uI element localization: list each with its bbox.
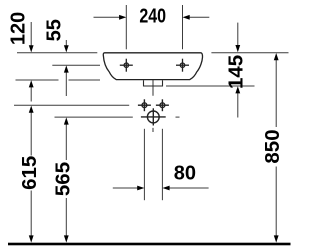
label 120	[8, 12, 30, 45]
arrowhead 145 down	[235, 45, 240, 52]
svg-text:120: 120	[8, 12, 30, 45]
basin bottom reference line right	[69, 79, 101, 81]
arrowhead 850 down	[274, 235, 279, 242]
rim line right extension	[211, 52, 288, 54]
line 565 right dash	[176, 116, 180, 118]
left fixing hole crosshair	[120, 59, 133, 72]
arrowhead 145 up	[235, 86, 240, 93]
dim 565 line lower part	[65, 198, 67, 237]
arrowhead 615 down	[29, 235, 34, 242]
left small mounting circle	[138, 99, 151, 111]
arrowhead 240 right (points left)	[183, 15, 190, 20]
dim 55 lower stem	[65, 72, 67, 96]
label 80	[174, 163, 196, 185]
arrowhead 615 up	[29, 106, 34, 113]
dim 145 upper stem	[237, 23, 239, 46]
arrowhead 55 up	[64, 65, 69, 72]
label 850	[261, 129, 284, 163]
arrowhead 240 left (points right)	[119, 15, 126, 20]
dim 240 right arrow line	[189, 16, 209, 18]
label 145	[225, 55, 248, 89]
dim 240 extension line right	[182, 5, 184, 49]
right fixing hole crosshair	[176, 59, 189, 72]
hole reference line	[52, 64, 100, 66]
dim 615 line lower part	[30, 191, 32, 237]
arrowhead 55 down	[64, 45, 69, 52]
arrowhead 120 up	[29, 80, 34, 87]
arrowhead 850 up	[274, 53, 279, 60]
right small mounting circle	[156, 99, 169, 111]
dim 240 extension line left	[125, 5, 127, 49]
line 565 reference	[55, 116, 133, 118]
rim line left extension	[17, 52, 97, 54]
svg-text:145: 145	[225, 55, 248, 89]
label 565	[51, 162, 74, 196]
label 615	[18, 156, 41, 190]
basin outline	[103, 53, 202, 80]
drain tab	[144, 80, 163, 86]
line 615 reference	[14, 104, 129, 106]
basin centerline lower dash	[152, 128, 154, 132]
svg-text:80: 80	[174, 163, 196, 185]
basin centerline upper	[152, 69, 154, 96]
arrowhead 120 down	[29, 45, 34, 52]
tab bottom extension line	[166, 85, 255, 87]
arrowhead 80 right (points left)	[162, 186, 169, 191]
drain circle	[141, 108, 166, 125]
dim 240 left arrow line	[94, 16, 121, 18]
dim 850 line lower part	[275, 167, 277, 237]
arrowhead 80 left (points right)	[137, 186, 144, 191]
label 240	[139, 5, 166, 27]
dim 80 left arrow line	[113, 187, 138, 189]
dim 80 extension line right	[161, 129, 163, 200]
arrowhead 565 up	[64, 117, 69, 124]
arrowhead 565 down	[64, 235, 69, 242]
svg-text:615: 615	[18, 156, 41, 190]
floor line	[8, 243, 291, 246]
dim 145 lower stem	[237, 93, 239, 118]
dim 565 line upper part	[65, 124, 67, 160]
svg-text:850: 850	[261, 129, 284, 163]
dim 55 upper stem	[65, 40, 67, 46]
dim 120 lower stem	[30, 87, 32, 102]
dim 850 line upper part	[275, 60, 277, 127]
basin bottom reference line left	[16, 79, 59, 81]
dim 615 line upper part	[30, 112, 32, 156]
svg-text:240: 240	[139, 5, 166, 27]
dim 80 extension line left	[143, 129, 145, 200]
svg-text:565: 565	[51, 162, 74, 196]
svg-text:55: 55	[44, 19, 66, 41]
dim 80 right arrow line	[169, 187, 209, 189]
dim 120 upper stem	[30, 22, 32, 46]
label 55	[44, 19, 66, 41]
